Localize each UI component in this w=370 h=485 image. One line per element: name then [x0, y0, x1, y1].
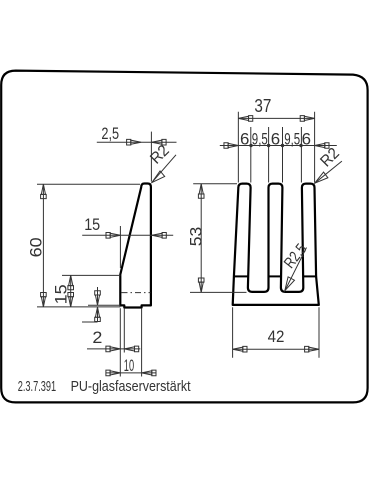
- svg-text:PU-glasfaserverstärkt: PU-glasfaserverstärkt: [71, 378, 192, 395]
- dimension 15 lower extension line: [62, 274, 120, 276]
- dimension 37 line: [238, 117, 314, 119]
- svg-text:10: 10: [124, 356, 134, 375]
- dimension 37 extension lines: [238, 112, 314, 183]
- svg-text:37: 37: [254, 96, 271, 116]
- dimension 60 baseline extension: [37, 306, 120, 308]
- svg-text:15: 15: [51, 284, 70, 304]
- svg-text:60: 60: [26, 237, 45, 257]
- dimension 53 top extension line: [193, 183, 237, 185]
- dimension 2,5 arrows: [127, 139, 141, 145]
- dimension 42 line: [233, 348, 319, 350]
- left view: center dash-dot line: [122, 292, 151, 294]
- svg-text:2.3.7.391: 2.3.7.391: [18, 378, 57, 395]
- dimension 60 top extension line: [37, 183, 140, 185]
- svg-text:6: 6: [271, 130, 280, 149]
- radius label R2,5 leader: [285, 248, 307, 291]
- dimension 2 line: [87, 348, 140, 350]
- prong pitch extension lines: [251, 127, 302, 183]
- left view: profile outline: [120, 184, 151, 308]
- right view: base top edge across prong 2: [269, 275, 282, 277]
- radius label R2 left view leader: [152, 155, 176, 183]
- svg-text:6: 6: [240, 130, 249, 149]
- dimension 53 bottom extension line: [190, 291, 247, 293]
- prong pitch dimension line: [220, 145, 337, 147]
- dimension 15 lower line: [70, 275, 72, 307]
- right view: base top edge across prong 3: [303, 275, 316, 277]
- svg-text:42: 42: [268, 327, 285, 346]
- svg-text:2,5: 2,5: [101, 124, 119, 143]
- svg-text:53: 53: [187, 227, 206, 247]
- bottom outer level extension line: [88, 304, 120, 306]
- dimension 15 upper line: [82, 234, 173, 236]
- right view: comb outline: [233, 184, 319, 305]
- radius label R2 right view leader: [315, 161, 342, 183]
- notch depth mini dimension: [82, 287, 98, 322]
- dimension 53 line: [200, 184, 202, 293]
- svg-text:15: 15: [84, 215, 100, 234]
- svg-text:9,5: 9,5: [252, 130, 268, 149]
- prong pitch division dots: [249, 144, 252, 147]
- dimension 15 upper extension line: [119, 226, 121, 268]
- bottom extension lines left view: [120, 308, 141, 376]
- dimension 2,5 extension line: [150, 132, 152, 182]
- dimension 60 line: [42, 184, 44, 307]
- svg-text:2: 2: [92, 328, 102, 347]
- dimension 2,5 line: [97, 141, 177, 143]
- svg-text:6: 6: [302, 130, 311, 149]
- dimension 10 line: [106, 372, 157, 374]
- right view: base top edge across prong 1: [234, 275, 248, 277]
- dimension 42 extension lines: [233, 307, 319, 358]
- svg-text:9,5: 9,5: [284, 130, 300, 149]
